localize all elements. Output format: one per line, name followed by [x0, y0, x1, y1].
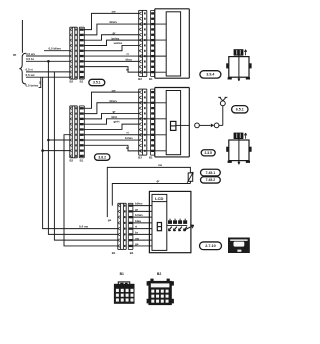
svg-text:B1: B1: [80, 80, 84, 84]
svg-text:gr/rt: gr/rt: [114, 120, 120, 124]
svg-text:LCD: LCD: [155, 196, 163, 201]
svg-text:br/ws: br/ws: [135, 213, 143, 217]
svg-text:0,5 ws: 0,5 ws: [26, 52, 35, 56]
svg-text:ge: ge: [135, 242, 139, 246]
svg-text:m: m: [13, 53, 16, 57]
svg-text:B1: B1: [112, 251, 116, 255]
svg-text:bl/ws: bl/ws: [135, 202, 143, 206]
svg-text:B2: B2: [70, 80, 74, 84]
svg-text:B2: B2: [138, 77, 142, 81]
svg-text:0,5 sw: 0,5 sw: [26, 73, 36, 77]
svg-text:rt: rt: [135, 225, 137, 229]
svg-text:B1: B1: [149, 156, 153, 160]
svg-text:sw: sw: [112, 88, 117, 92]
svg-text:B1: B1: [120, 272, 124, 276]
svg-text:bl/ws: bl/ws: [110, 99, 118, 103]
svg-text:0,4 sw: 0,4 sw: [79, 225, 89, 229]
svg-text:2.7.10: 2.7.10: [205, 244, 216, 248]
svg-text:bl/rt: bl/rt: [112, 115, 118, 119]
svg-text:2.3.5: 2.3.5: [205, 151, 212, 155]
svg-text:rt: rt: [127, 131, 129, 135]
svg-text:B1: B1: [80, 158, 84, 162]
svg-text:7.45.2: 7.45.2: [206, 178, 216, 182]
svg-text:ge: ge: [108, 218, 112, 222]
svg-text:0,5 br/ws: 0,5 br/ws: [26, 84, 39, 88]
svg-text:sw/ws: sw/ws: [114, 41, 123, 45]
svg-text:B2: B2: [138, 156, 142, 160]
svg-text:3.5.1: 3.5.1: [93, 81, 101, 85]
svg-text:blau: blau: [126, 57, 132, 61]
svg-text:br/ws: br/ws: [125, 136, 133, 140]
svg-text:0,5 rt: 0,5 rt: [26, 68, 33, 72]
svg-text:blau: blau: [135, 219, 141, 223]
svg-text:sw: sw: [135, 236, 140, 240]
svg-text:B1: B1: [130, 251, 134, 255]
svg-text:sw: sw: [112, 10, 117, 14]
svg-text:rt: rt: [127, 52, 129, 56]
svg-text:3.8.2: 3.8.2: [98, 155, 106, 159]
svg-text:1): 1): [39, 80, 41, 84]
svg-text:B1: B1: [149, 77, 153, 81]
svg-text:bl/ws: bl/ws: [110, 20, 118, 24]
svg-text:3.9.4: 3.9.4: [206, 73, 214, 77]
svg-text:br/ws: br/ws: [112, 36, 120, 40]
svg-text:0,5 br: 0,5 br: [26, 57, 35, 61]
svg-text:B2: B2: [157, 272, 161, 276]
svg-text:sw: sw: [158, 163, 163, 167]
svg-text:0,5 bl/ws: 0,5 bl/ws: [49, 47, 62, 51]
svg-text:B2: B2: [70, 158, 74, 162]
svg-text:6.5.1: 6.5.1: [236, 108, 244, 112]
svg-text:7.45.1: 7.45.1: [206, 171, 216, 175]
